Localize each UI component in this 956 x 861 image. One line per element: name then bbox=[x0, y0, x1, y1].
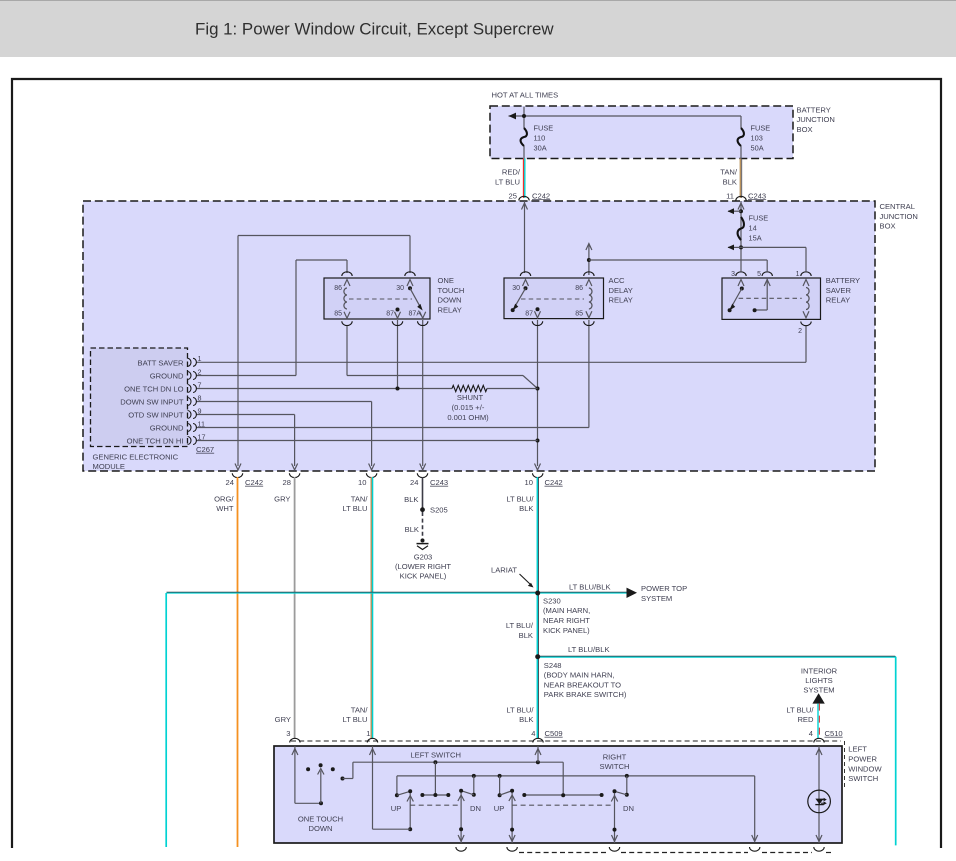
svg-text:NEAR BREAKOUT TO: NEAR BREAKOUT TO bbox=[544, 680, 621, 689]
svg-text:ONE TCH DN LO: ONE TCH DN LO bbox=[124, 385, 183, 394]
svg-text:RELAY: RELAY bbox=[438, 305, 462, 314]
svg-text:TAN/: TAN/ bbox=[720, 168, 738, 177]
svg-text:ONE TCH DN HI: ONE TCH DN HI bbox=[127, 437, 184, 446]
svg-text:4: 4 bbox=[531, 729, 535, 738]
svg-text:87: 87 bbox=[386, 311, 394, 318]
svg-text:10: 10 bbox=[525, 478, 533, 487]
svg-text:SYSTEM: SYSTEM bbox=[641, 594, 672, 603]
svg-text:UP: UP bbox=[494, 804, 505, 813]
svg-text:110: 110 bbox=[534, 134, 546, 143]
svg-text:KICK PANEL): KICK PANEL) bbox=[400, 572, 447, 581]
svg-text:86: 86 bbox=[575, 285, 583, 292]
svg-text:DN: DN bbox=[623, 804, 634, 813]
svg-text:11: 11 bbox=[726, 191, 734, 200]
svg-text:4: 4 bbox=[809, 729, 813, 738]
svg-text:MODULE: MODULE bbox=[93, 462, 126, 471]
svg-text:S248: S248 bbox=[544, 661, 562, 670]
svg-text:9: 9 bbox=[198, 406, 202, 415]
svg-text:SAVER: SAVER bbox=[826, 286, 852, 295]
svg-text:DELAY: DELAY bbox=[609, 286, 633, 295]
svg-text:GENERIC ELECTRONIC: GENERIC ELECTRONIC bbox=[93, 453, 179, 462]
svg-text:(BODY MAIN HARN,: (BODY MAIN HARN, bbox=[544, 671, 615, 680]
svg-text:(MAIN HARN,: (MAIN HARN, bbox=[543, 606, 590, 615]
svg-text:POWER TOP: POWER TOP bbox=[641, 584, 687, 593]
svg-text:3: 3 bbox=[286, 729, 290, 738]
svg-text:FUSE: FUSE bbox=[749, 214, 769, 223]
svg-text:FUSE: FUSE bbox=[534, 124, 554, 133]
svg-text:85: 85 bbox=[575, 311, 583, 318]
svg-text:30: 30 bbox=[396, 285, 404, 292]
svg-text:DOWN SW INPUT: DOWN SW INPUT bbox=[120, 398, 184, 407]
svg-text:DOWN: DOWN bbox=[308, 824, 332, 833]
svg-text:HOT AT ALL TIMES: HOT AT ALL TIMES bbox=[492, 91, 559, 100]
svg-text:LT BLU: LT BLU bbox=[342, 504, 367, 513]
svg-text:C242: C242 bbox=[532, 191, 550, 200]
svg-text:LT BLU/BLK: LT BLU/BLK bbox=[568, 645, 610, 654]
svg-text:LT BLU/: LT BLU/ bbox=[506, 621, 534, 630]
svg-text:C243: C243 bbox=[748, 191, 766, 200]
svg-text:2: 2 bbox=[798, 328, 802, 335]
svg-text:LT BLU/: LT BLU/ bbox=[786, 705, 814, 714]
svg-text:C510: C510 bbox=[825, 729, 843, 738]
svg-text:RELAY: RELAY bbox=[826, 296, 850, 305]
svg-text:FUSE: FUSE bbox=[751, 124, 771, 133]
svg-text:JUNCTION: JUNCTION bbox=[797, 115, 835, 124]
svg-text:3: 3 bbox=[731, 271, 735, 278]
svg-text:LEFT SWITCH: LEFT SWITCH bbox=[410, 750, 461, 759]
svg-text:CENTRAL: CENTRAL bbox=[880, 202, 915, 211]
svg-text:JUNCTION: JUNCTION bbox=[880, 212, 918, 221]
svg-text:SWITCH: SWITCH bbox=[600, 762, 630, 771]
svg-text:ONE TOUCH: ONE TOUCH bbox=[298, 814, 343, 823]
svg-text:LT BLU/: LT BLU/ bbox=[506, 706, 534, 715]
svg-text:UP: UP bbox=[391, 804, 402, 813]
svg-text:1: 1 bbox=[198, 354, 202, 363]
svg-text:BLK: BLK bbox=[519, 631, 533, 640]
svg-text:C509: C509 bbox=[545, 729, 563, 738]
svg-text:RED: RED bbox=[797, 715, 814, 724]
svg-text:BOX: BOX bbox=[797, 125, 813, 134]
svg-text:SYSTEM: SYSTEM bbox=[803, 686, 834, 695]
svg-text:S205: S205 bbox=[430, 506, 448, 515]
svg-text:GROUND: GROUND bbox=[150, 424, 184, 433]
svg-text:DN: DN bbox=[470, 804, 481, 813]
svg-text:8: 8 bbox=[198, 393, 202, 402]
svg-text:1: 1 bbox=[796, 271, 800, 278]
svg-text:ONE: ONE bbox=[438, 276, 454, 285]
svg-text:BATT SAVER: BATT SAVER bbox=[138, 358, 185, 367]
svg-text:50A: 50A bbox=[751, 144, 764, 153]
svg-text:5: 5 bbox=[757, 271, 761, 278]
svg-text:INTERIOR: INTERIOR bbox=[801, 667, 838, 676]
svg-text:OTD SW INPUT: OTD SW INPUT bbox=[128, 411, 184, 420]
svg-text:2: 2 bbox=[198, 367, 202, 376]
svg-text:(0.015 +/-: (0.015 +/- bbox=[452, 403, 485, 412]
svg-text:7: 7 bbox=[198, 380, 202, 389]
svg-text:LIGHTS: LIGHTS bbox=[805, 676, 832, 685]
svg-text:ORG/: ORG/ bbox=[214, 495, 234, 504]
svg-text:BLK: BLK bbox=[405, 525, 419, 534]
svg-text:14: 14 bbox=[749, 224, 757, 233]
svg-text:BATTERY: BATTERY bbox=[797, 105, 831, 114]
svg-text:11: 11 bbox=[198, 419, 205, 428]
svg-text:TOUCH: TOUCH bbox=[438, 286, 465, 295]
svg-text:(LOWER RIGHT: (LOWER RIGHT bbox=[395, 562, 451, 571]
svg-text:103: 103 bbox=[751, 134, 763, 143]
svg-text:LEFT: LEFT bbox=[848, 745, 867, 754]
svg-text:LARIAT: LARIAT bbox=[491, 565, 517, 574]
svg-text:C243: C243 bbox=[430, 478, 448, 487]
svg-text:C242: C242 bbox=[545, 478, 563, 487]
svg-text:NEAR RIGHT: NEAR RIGHT bbox=[543, 616, 590, 625]
svg-text:POWER: POWER bbox=[848, 754, 877, 763]
svg-text:SHUNT: SHUNT bbox=[457, 393, 484, 402]
svg-text:RIGHT: RIGHT bbox=[603, 753, 627, 762]
svg-text:S230: S230 bbox=[543, 596, 561, 605]
svg-text:GRY: GRY bbox=[275, 715, 291, 724]
svg-text:BLK: BLK bbox=[519, 715, 533, 724]
svg-text:85: 85 bbox=[334, 311, 342, 318]
svg-text:WHT: WHT bbox=[216, 504, 234, 513]
svg-text:TAN/: TAN/ bbox=[351, 495, 369, 504]
svg-text:28: 28 bbox=[283, 478, 291, 487]
svg-text:LT BLU: LT BLU bbox=[342, 715, 367, 724]
svg-text:LT BLU/BLK: LT BLU/BLK bbox=[569, 583, 611, 592]
svg-text:15A: 15A bbox=[749, 234, 762, 243]
svg-text:24: 24 bbox=[226, 478, 234, 487]
svg-text:0.001 OHM): 0.001 OHM) bbox=[447, 413, 489, 422]
svg-text:17: 17 bbox=[198, 432, 206, 441]
svg-text:C267: C267 bbox=[196, 445, 214, 454]
svg-text:DOWN: DOWN bbox=[438, 296, 462, 305]
svg-text:TAN/: TAN/ bbox=[351, 706, 369, 715]
svg-text:BOX: BOX bbox=[880, 222, 896, 231]
svg-text:G203: G203 bbox=[414, 552, 433, 561]
svg-text:87A: 87A bbox=[409, 311, 422, 318]
svg-text:SWITCH: SWITCH bbox=[848, 774, 878, 783]
svg-text:Fig 1: Power Window Circuit, E: Fig 1: Power Window Circuit, Except Supe… bbox=[195, 20, 554, 39]
svg-text:BATTERY: BATTERY bbox=[826, 276, 860, 285]
svg-text:GRY: GRY bbox=[274, 495, 290, 504]
svg-text:86: 86 bbox=[334, 285, 342, 292]
svg-text:24: 24 bbox=[410, 478, 418, 487]
svg-text:GROUND: GROUND bbox=[150, 372, 184, 381]
svg-text:RELAY: RELAY bbox=[609, 296, 633, 305]
svg-text:BLK: BLK bbox=[404, 495, 418, 504]
svg-text:WINDOW: WINDOW bbox=[848, 764, 882, 773]
svg-text:C242: C242 bbox=[245, 478, 263, 487]
svg-text:25: 25 bbox=[509, 191, 517, 200]
svg-text:ACC: ACC bbox=[609, 276, 626, 285]
svg-text:1: 1 bbox=[366, 729, 370, 738]
svg-text:RED/: RED/ bbox=[502, 168, 521, 177]
svg-text:10: 10 bbox=[358, 478, 366, 487]
svg-text:87: 87 bbox=[525, 311, 533, 318]
svg-text:LT BLU: LT BLU bbox=[495, 177, 520, 186]
svg-text:PARK BRAKE SWITCH): PARK BRAKE SWITCH) bbox=[544, 690, 627, 699]
svg-text:BLK: BLK bbox=[519, 504, 533, 513]
svg-text:30: 30 bbox=[512, 285, 520, 292]
svg-text:30A: 30A bbox=[534, 144, 547, 153]
svg-text:KICK PANEL): KICK PANEL) bbox=[543, 626, 590, 635]
svg-text:LT BLU/: LT BLU/ bbox=[506, 495, 534, 504]
svg-text:BLK: BLK bbox=[723, 177, 737, 186]
